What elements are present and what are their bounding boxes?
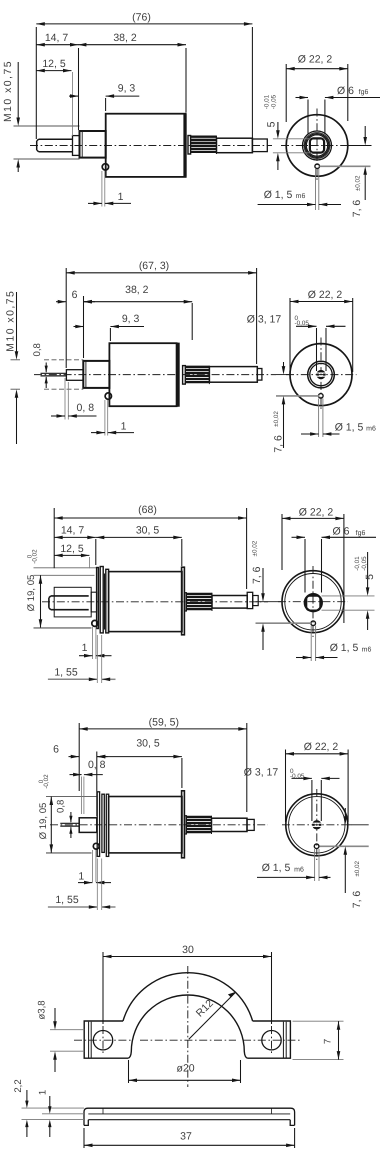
svg-text:Ø 6: Ø 6 [333,526,350,538]
svg-text:Ø 3, 17: Ø 3, 17 [244,766,279,778]
svg-text:ø3,8: ø3,8 [37,1000,48,1019]
svg-text:-0,05: -0,05 [290,773,305,780]
centerline view 2 [34,374,276,376]
svg-text:1: 1 [78,871,84,883]
end cap view 3 [182,567,185,635]
M10 thread crest lines view 1 [14,125,80,127]
shaft tip stub view 3 [253,596,259,606]
svg-text:0,8: 0,8 [56,800,67,813]
splined shaft view 3 [185,593,187,611]
svg-text:-0,02: -0,02 [31,549,38,564]
shaft step box view 4 [79,818,97,833]
svg-text:7, 6: 7, 6 [351,891,363,909]
O19,05 extension lines view 4 [46,796,96,798]
motor body view 1 [106,114,186,177]
svg-text:0,8: 0,8 [32,343,43,356]
dimension 30,5 view 3 [181,539,183,566]
dimension (68) [53,508,55,568]
shaft tip view 1 [252,139,267,152]
dimension 2,2 strip [22,1107,85,1109]
slotted shaft end view 4 (O3,17) [313,821,320,828]
spline ridge view 1 [188,136,191,155]
svg-text:38, 2: 38, 2 [125,284,149,296]
svg-text:Ø 22, 2: Ø 22, 2 [304,741,339,753]
splined shaft view 1 [191,136,217,138]
svg-text:7, 6: 7, 6 [273,435,285,453]
end view centerlines 2 [286,374,357,376]
svg-text:9, 3: 9, 3 [122,313,140,325]
svg-text:12, 5: 12, 5 [42,58,66,70]
crimp rib 3 view 4 [106,794,108,856]
dimension 7 bracket [293,1020,344,1022]
svg-text:M10 x0,75: M10 x0,75 [6,290,17,352]
dimension O19,05 view 4 [50,797,52,853]
svg-text:5: 5 [266,121,278,127]
svg-text:6: 6 [53,744,59,756]
svg-text:Ø 22, 2: Ø 22, 2 [298,53,333,65]
svg-text:30: 30 [182,944,194,956]
end view inner rim circle 4 [289,797,345,853]
svg-text:(68): (68) [138,504,157,516]
svg-text:-0,01: -0,01 [264,94,271,109]
crimp rib 3 view 3 [106,569,109,633]
strip inner top line [88,1113,290,1115]
dimension O22,2 view 2 [289,298,291,372]
shaft tip collar view 3 [247,592,253,608]
motor can view 4 [109,797,182,853]
svg-text:1: 1 [121,421,127,433]
bracket centerlines [187,966,189,1087]
svg-text:12, 5: 12, 5 [60,543,84,555]
dimension 7,6 view 2 [276,374,291,376]
dimension O0,8 view 2 [45,363,47,373]
shaft tip view 4 [247,819,254,830]
strip bottom edge [88,1119,290,1121]
locating pin view 2 (O1,5) [319,394,324,399]
sleeve step view 3 [91,592,96,612]
svg-text:14, 7: 14, 7 [45,32,69,44]
svg-text:fg6: fg6 [356,529,366,537]
dimension O1,5 m6 view 2 [318,399,320,438]
svg-text:0, 8: 0, 8 [77,402,95,414]
svg-text:Ø 1, 5: Ø 1, 5 [262,862,291,874]
svg-text:±0,02: ±0,02 [273,411,280,427]
end view centerlines 1 [281,145,354,147]
motor body view 2 [109,343,176,406]
shaft tip view 2 [257,369,262,381]
hub circles view 1 [303,131,332,160]
dimension 1,55 view 3 [96,635,98,683]
dimension 30 bracket [102,952,104,1024]
thread bushing M10 view 1 [80,131,106,158]
bracket arch inner O20 [128,995,247,1058]
splined shaft view 4 [185,816,187,834]
rib extension line view 3 [34,567,97,569]
dimension 38,2 view 1 [185,48,187,113]
svg-text:38, 2: 38, 2 [113,32,137,44]
dimension 0,8 step view 2 [64,378,66,420]
shaft step view 2 [66,370,83,381]
crimp rib 2 view 4 [102,794,104,852]
dimension 7,6 view 3 [256,601,282,603]
svg-text:Ø 1, 5: Ø 1, 5 [264,189,293,201]
shaft square with flats view 3 [306,596,320,611]
svg-text:37: 37 [180,1131,192,1143]
dimension O3,17 view 4 [311,780,313,821]
dimension 1 strip [42,1113,84,1115]
svg-text:±0,02: ±0,02 [252,540,259,556]
svg-text:7: 7 [323,1039,334,1044]
svg-text:2,2: 2,2 [13,1079,24,1092]
shaft step view 1 [73,136,80,156]
dimension 0,8 step view 4 [81,777,83,815]
svg-text:Ø 19, 05: Ø 19, 05 [38,803,49,840]
svg-text:±0,02: ±0,02 [354,860,361,876]
svg-text:7, 6: 7, 6 [351,200,363,218]
strip witness ticks [102,1108,104,1114]
svg-text:Ø 1, 5: Ø 1, 5 [330,642,359,654]
svg-text:Ø 22, 2: Ø 22, 2 [299,506,334,518]
dimension O22,2 view 4 [285,750,287,823]
dimension 7,6 view 1 [349,145,372,147]
output shaft view 3 [212,596,247,609]
O19,05 extension lines view 3 [34,574,95,576]
svg-text:(76): (76) [132,11,151,23]
svg-text:±0,02: ±0,02 [354,175,361,191]
terminal eyelet view 1 [102,164,108,170]
slotted shaft end view 2 (O3,17) [318,371,325,378]
dimension (76) [35,27,37,139]
svg-text:-0,01: -0,01 [354,556,361,571]
dimension O0,8 view 4 [70,812,72,822]
wire stub view 2 (O0,8) [41,372,67,374]
dimension O22,2 view 3 [281,514,283,570]
svg-text:30, 5: 30, 5 [136,525,160,537]
svg-text:1, 55: 1, 55 [55,894,79,906]
svg-text:(67, 3): (67, 3) [139,260,169,272]
dimension 5 flats view 1 [273,138,310,140]
svg-text:30, 5: 30, 5 [136,738,160,750]
svg-text:M10 x0,75: M10 x0,75 [3,60,14,122]
svg-text:Ø 22, 2: Ø 22, 2 [308,289,343,301]
dimension O22,2 view 1 [285,64,287,122]
centerline view 3 [42,601,268,603]
dimension M10x0,75 view 2 [16,292,18,356]
locating pin view 1 (O1,5) [315,164,320,169]
dimension 37 strip [83,1128,85,1148]
terminal eyelet view 2 [105,393,111,399]
dimension O1,5 m6 view 1 [315,169,317,210]
dimension o20 bracket [128,1060,130,1083]
crimp rib 1 view 4 [97,792,99,857]
dimension 12,5 view 3 [54,554,89,556]
crimp rib 1 view 3 [97,568,99,629]
strip top edge [84,1108,295,1125]
dimension 1,55 view 4 [96,859,98,911]
hub circle view 3 (O6) [305,594,322,611]
svg-text:-0,05: -0,05 [271,94,278,109]
svg-text:(59, 5): (59, 5) [149,716,179,728]
left tab view 5 [84,1021,128,1058]
end view centerlines 3 [278,601,348,603]
dimension 12,5 view 1 [36,70,71,72]
end view circle 2 (O22,2) [290,344,352,406]
strip feet [84,1120,295,1126]
thread bushing M10 view 2 [83,361,109,388]
dimension 1 view 4 [92,850,94,882]
splined shaft view 2 [185,366,209,368]
dimension o3,8 bracket [50,1029,84,1031]
svg-text:m6: m6 [362,646,372,653]
end view outer circle 3 (O22,2) [282,571,344,633]
dimension 1 view 3 [92,627,94,659]
dimension 9,3 view 1 [69,95,79,97]
end view centerlines 4 [282,824,352,826]
svg-text:m6: m6 [366,426,376,433]
dimension O19,05 view 3 [40,575,42,627]
svg-text:14, 7: 14, 7 [61,525,85,537]
dimension O6 fg6 view 3 [304,539,306,593]
svg-text:0, 8: 0, 8 [88,759,106,771]
svg-text:ø20: ø20 [177,1063,195,1075]
left hole O3,8 [93,1031,112,1050]
end view circle 1 (O22,2) [286,115,348,177]
svg-text:-0,05: -0,05 [295,320,310,327]
svg-text:6: 6 [72,289,78,301]
dimension 6 view 2 [56,301,66,303]
dimension (59,5) [78,723,80,791]
crimp rib bar view 3 [104,574,106,630]
svg-text:Ø 3, 17: Ø 3, 17 [247,313,282,325]
end view outer circle 4 (O22,2) [286,794,348,856]
terminal eyelet view 4 [93,843,99,849]
end view inner rim circle 3 [285,574,341,630]
dimension 1 view 2 [104,400,106,436]
svg-text:1, 55: 1, 55 [54,666,78,678]
svg-text:-0,02: -0,02 [43,774,50,789]
dimension 1 view 1 [101,171,103,207]
dimension (67,3) [65,268,67,368]
wire stub view 4 (O0,8) [60,822,79,824]
crimp rib 2 view 3 [100,567,103,633]
left shaft view 1 [37,139,73,152]
terminal eyelet view 3 [92,620,98,626]
centerline view 4 [50,824,268,826]
svg-text:Ø 6: Ø 6 [337,85,354,97]
dimension O1,5 m6 view 3 [310,626,312,661]
dimension 14,7 view 1 [78,48,80,130]
svg-text:5: 5 [364,574,376,580]
bracket arch outer R12 [123,973,253,1021]
centerline view 1 [30,145,272,147]
dimension 30,5 view 4 [181,758,183,788]
output shaft view 1 [217,138,253,153]
output shaft view 4 [212,818,248,831]
dimension 7,6 view 4 [349,824,369,826]
dimension 38,2 view 2 [191,303,193,340]
right hole O3,8 [262,1031,281,1050]
svg-text:1: 1 [38,1090,49,1095]
svg-text:m6: m6 [296,193,306,200]
left shaft view 3 [49,596,89,610]
svg-text:1: 1 [82,642,88,654]
output shaft view 2 [209,367,257,383]
dimension O1,5 m6 view 4 [314,849,316,881]
dimension 5 flats view 3 [322,595,375,597]
shaft square with flats view 1 [310,138,324,152]
dimension M10x0,75 view 1 [17,62,19,122]
end cap view 4 [182,791,185,858]
svg-text:1: 1 [118,191,124,203]
svg-text:fg6: fg6 [359,88,369,96]
dimension 14,7 view 3 [95,539,97,565]
dimension 6 view 4 [69,756,80,758]
motor can view 3 [109,572,182,632]
dimension O6 fg6 view 1 [307,100,309,135]
svg-text:Ø 19, 05: Ø 19, 05 [26,575,37,612]
bearing sleeve view 3 [54,587,91,617]
svg-text:Ø 1, 5: Ø 1, 5 [335,421,364,433]
dimension 9,3 view 2 [74,326,84,328]
radius R12 label [189,993,235,1040]
body end cap view 2 [177,343,180,407]
svg-text:-0,05: -0,05 [361,556,368,571]
right tab view 5 [247,1021,290,1058]
spline ridge view 2 [183,366,186,385]
svg-text:9, 3: 9, 3 [118,83,136,95]
hub circles view 2 [308,361,335,388]
dimension O3,17 view 2 [316,328,318,371]
M10 hidden thread lines view 2 [44,359,83,361]
svg-text:m6: m6 [294,866,304,873]
locating pin view 4 (O1,5) [314,844,319,849]
locating pin view 3 (O1,5) [311,621,316,626]
svg-text:7, 6: 7, 6 [251,566,263,584]
